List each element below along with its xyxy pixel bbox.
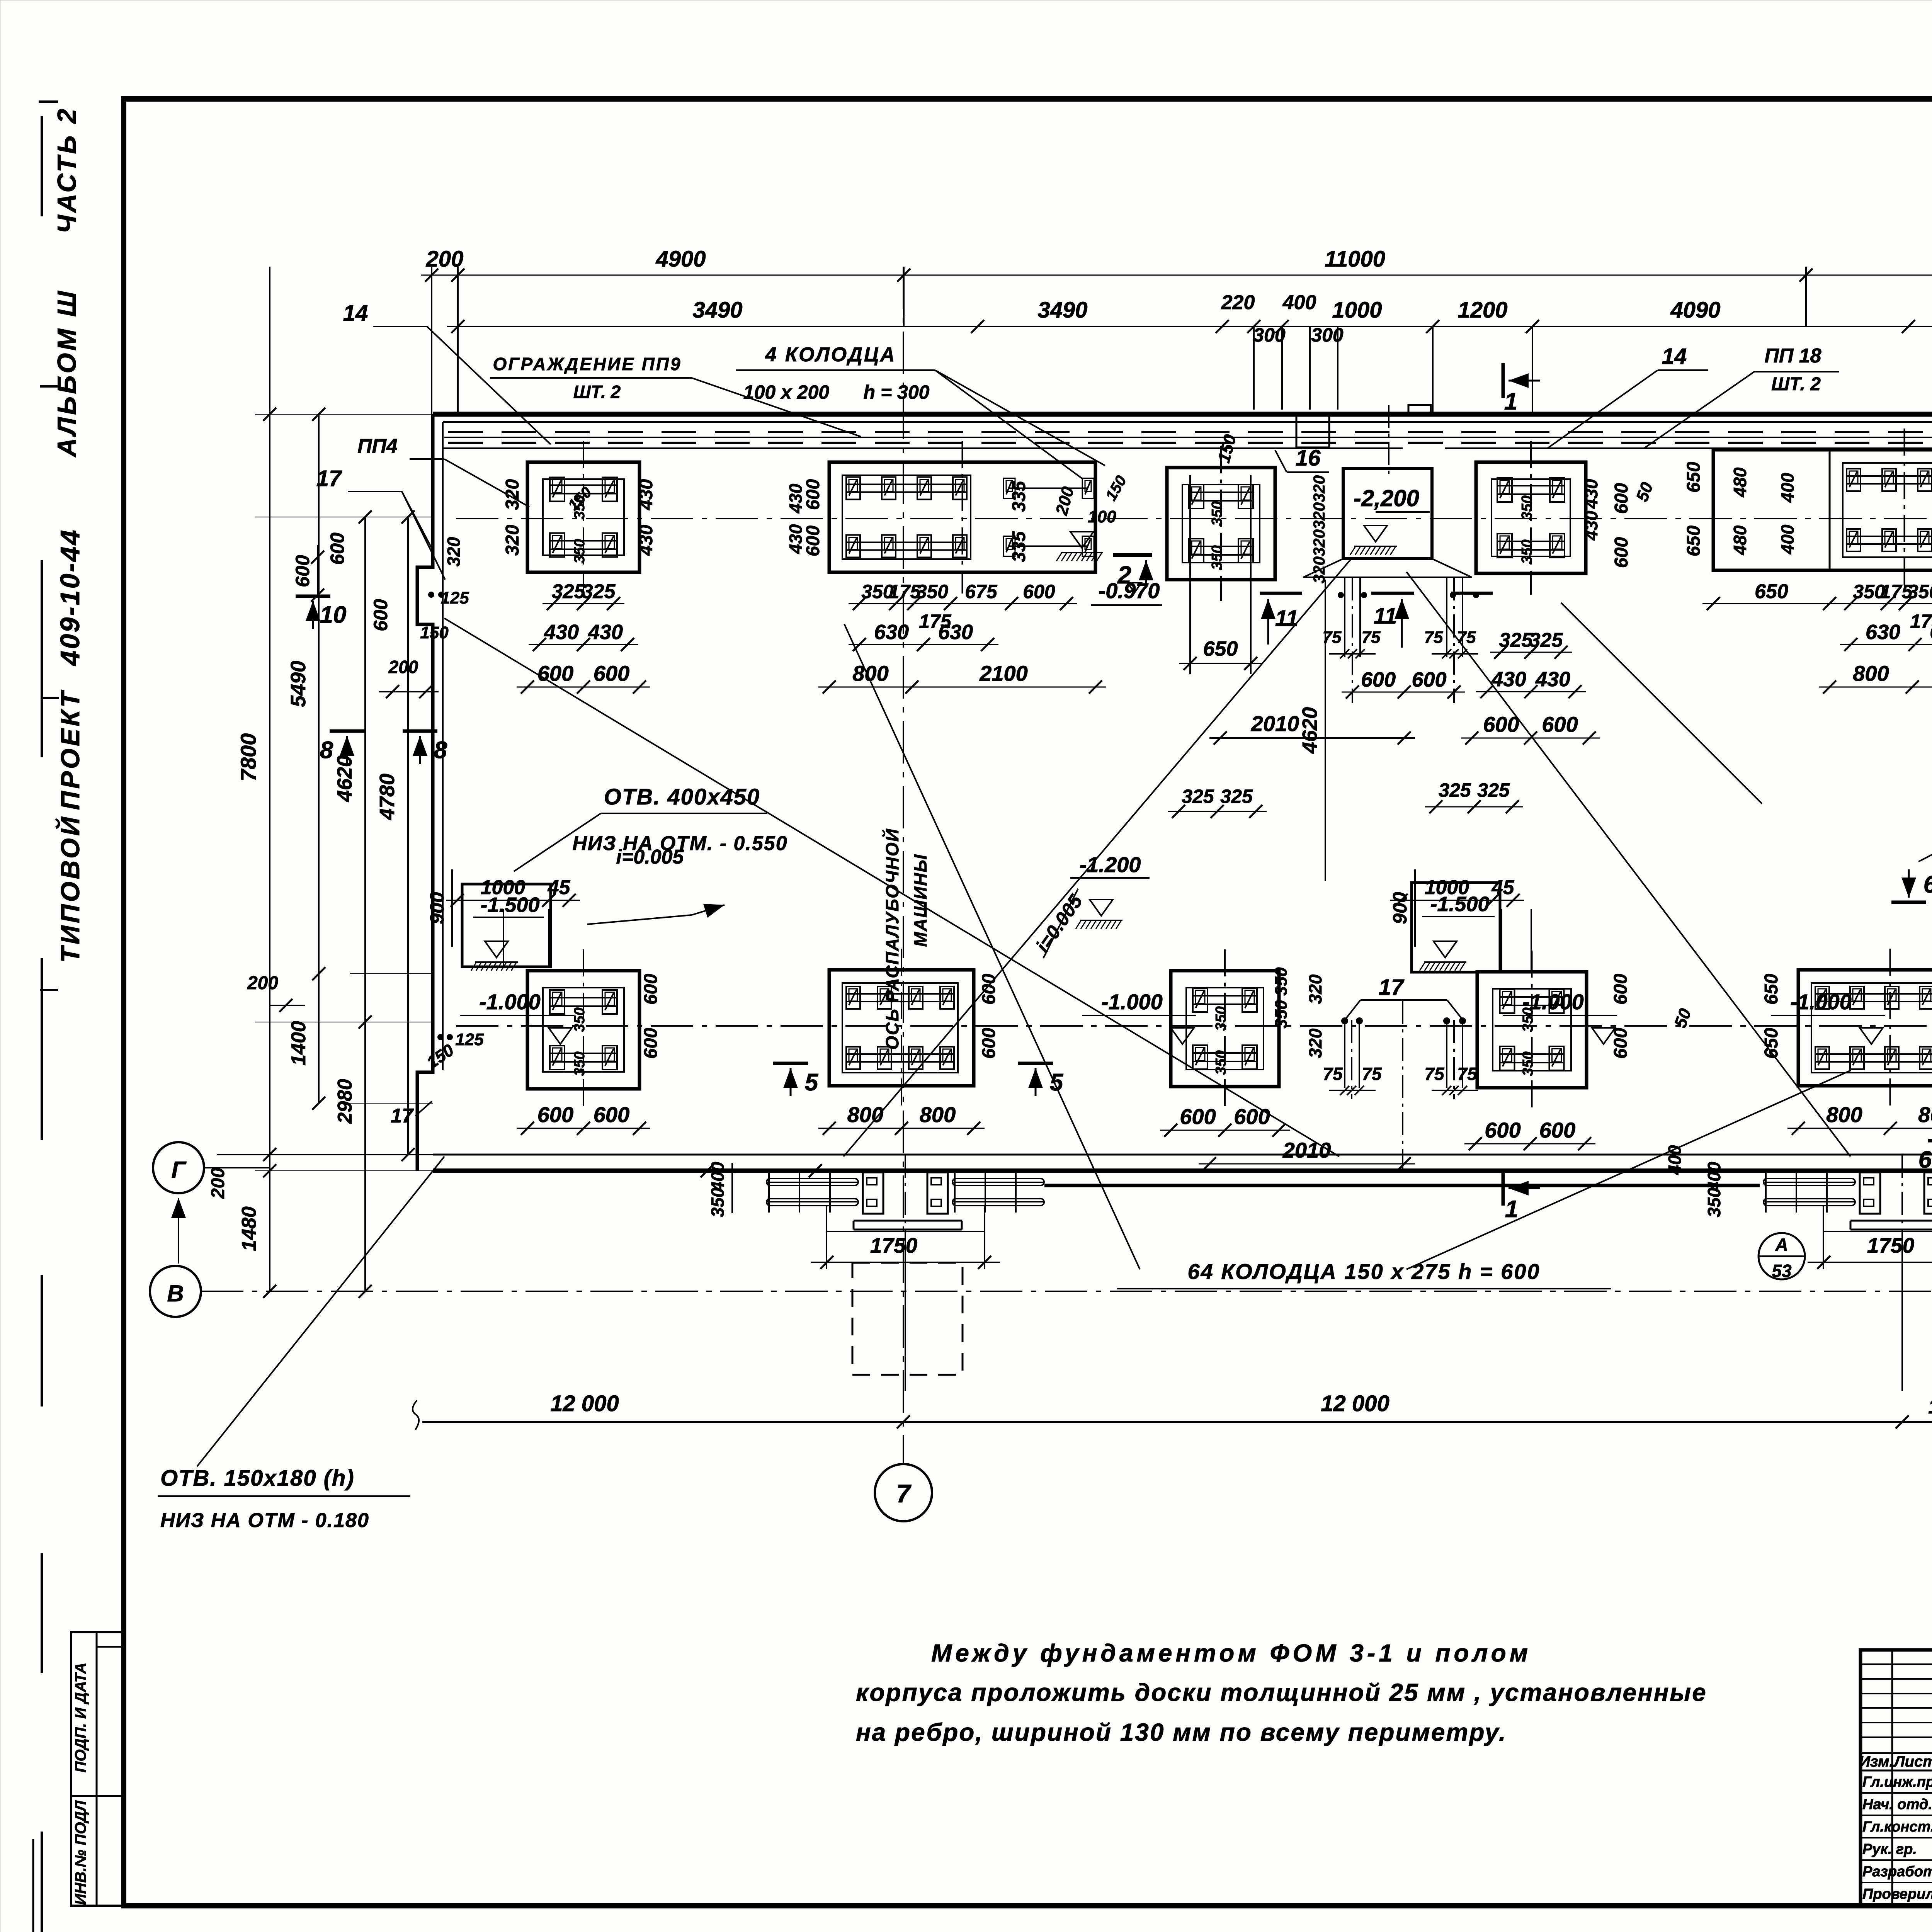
svg-text:100: 100 [1088,507,1116,526]
svg-text:45: 45 [1492,876,1515,899]
svg-text:75: 75 [1457,628,1476,647]
svg-text:150: 150 [420,623,449,642]
svg-text:350: 350 [1519,539,1535,564]
svg-text:350: 350 [1908,581,1932,602]
svg-text:ПРОЕКТ: ПРОЕКТ [56,689,85,810]
svg-text:1: 1 [1504,388,1517,415]
svg-text:11: 11 [1275,606,1298,631]
svg-text:325: 325 [1477,779,1510,801]
svg-text:650: 650 [1203,637,1238,660]
svg-text:430: 430 [1581,510,1601,541]
svg-text:16: 16 [1296,446,1321,471]
svg-text:200: 200 [208,1168,228,1199]
svg-text:320: 320 [502,479,523,510]
svg-text:45: 45 [548,876,571,899]
svg-text:4090: 4090 [1670,298,1720,323]
svg-text:350: 350 [571,539,588,563]
svg-text:4620: 4620 [333,755,356,802]
svg-text:Между фундаментом: Между фундаментом ФОМ 3-1 и полом [931,1639,1531,1667]
svg-text:325: 325 [1182,786,1214,807]
svg-text:600: 600 [1542,712,1578,736]
svg-text:320: 320 [1310,529,1328,556]
svg-text:600: 600 [1611,537,1632,568]
svg-text:i=0.005: i=0.005 [616,846,684,868]
svg-text:600: 600 [979,1028,999,1059]
svg-text:75: 75 [1457,1064,1478,1084]
svg-text:17: 17 [316,466,342,491]
svg-text:125: 125 [440,588,469,607]
svg-text:3490: 3490 [692,298,742,323]
svg-text:650: 650 [1684,462,1704,493]
svg-text:650: 650 [1761,974,1782,1005]
svg-text:1000: 1000 [481,876,526,899]
svg-text:430: 430 [1491,668,1526,691]
svg-text:430: 430 [544,621,579,644]
svg-text:600: 600 [594,661,629,685]
svg-text:1200: 1200 [1458,298,1507,323]
svg-text:320: 320 [444,537,464,566]
svg-text:400: 400 [1704,1162,1724,1192]
svg-text:800: 800 [1826,1102,1862,1127]
svg-text:14: 14 [343,301,368,326]
svg-text:325: 325 [582,580,616,603]
svg-text:600: 600 [1611,974,1631,1005]
svg-text:6: 6 [1923,871,1932,898]
svg-text:409-10-44: 409-10-44 [55,528,85,666]
svg-text:12 000: 12 000 [550,1391,619,1416]
svg-text:400: 400 [1282,291,1316,314]
svg-text:630: 630 [1930,621,1932,644]
svg-text:1000: 1000 [1928,1396,1932,1418]
svg-text:-1.000: -1.000 [1522,990,1584,1014]
svg-text:350: 350 [1209,545,1225,570]
svg-text:17: 17 [391,1105,414,1127]
svg-text:ТИПОВОЙ: ТИПОВОЙ [55,815,85,963]
svg-text:1750: 1750 [1867,1233,1915,1257]
svg-text:ОГРАЖДЕНИЕ ПП9: ОГРАЖДЕНИЕ ПП9 [493,354,682,374]
svg-text:Проверил: Проверил [1862,1886,1932,1902]
svg-text:1: 1 [1505,1196,1518,1223]
svg-text:НИЗ НА ОТМ - 0.180: НИЗ НА ОТМ - 0.180 [160,1509,369,1532]
svg-text:h = 300: h = 300 [864,381,930,403]
svg-text:350: 350 [571,1051,588,1076]
svg-text:ОТВ. 400х450: ОТВ. 400х450 [604,784,760,810]
svg-text:320: 320 [1310,502,1328,529]
svg-text:900: 900 [1389,892,1411,924]
svg-text:600: 600 [537,1102,573,1127]
svg-text:325: 325 [1220,786,1253,807]
svg-text:600: 600 [641,1028,661,1059]
svg-text:75: 75 [1362,628,1381,647]
svg-text:-1.200: -1.200 [1080,852,1141,877]
svg-text:220: 220 [1221,291,1255,314]
svg-text:2010: 2010 [1282,1138,1331,1162]
svg-text:6: 6 [1918,1146,1932,1173]
svg-text:600: 600 [803,526,823,556]
svg-text:4780: 4780 [376,774,399,820]
svg-text:7: 7 [896,1479,912,1508]
svg-text:Гл.инж.пр: Гл.инж.пр [1862,1774,1932,1790]
svg-text:900: 900 [426,892,448,924]
svg-text:600: 600 [1539,1118,1575,1142]
svg-text:Г: Г [172,1157,187,1183]
svg-text:11000: 11000 [1325,247,1385,272]
svg-text:600: 600 [1485,1118,1520,1142]
svg-text:4 КОЛОДЦА: 4 КОЛОДЦА [765,344,896,366]
svg-text:75: 75 [1424,628,1443,647]
svg-text:650: 650 [1684,526,1704,556]
svg-text:650: 650 [1755,580,1788,603]
svg-text:А: А [1775,1235,1788,1255]
svg-text:Изм.: Изм. [1859,1753,1893,1770]
svg-text:600: 600 [803,479,823,510]
svg-text:350: 350 [1213,1006,1229,1031]
svg-text:400: 400 [1777,473,1798,503]
svg-text:125: 125 [455,1030,484,1049]
svg-text:10: 10 [320,602,347,628]
svg-text:17: 17 [1379,975,1405,1000]
svg-text:630: 630 [938,621,973,644]
svg-text:8: 8 [320,737,333,764]
svg-text:ОСЬ РАСПАЛУБОЧНОЙ: ОСЬ РАСПАЛУБОЧНОЙ [882,828,902,1049]
svg-text:ИНВ.№ ПОДЛ: ИНВ.№ ПОДЛ [72,1800,89,1905]
svg-text:480: 480 [1730,467,1750,497]
svg-text:ШТ. 2: ШТ. 2 [573,382,621,402]
svg-text:на ребро, шириной 130 мм: на ребро, шириной 130 мм по всему периме… [856,1718,1507,1746]
svg-text:4620: 4620 [1298,707,1321,754]
svg-text:8: 8 [434,737,447,764]
svg-text:75: 75 [1362,1064,1382,1084]
svg-text:350: 350 [1520,1051,1536,1076]
svg-text:ШТ. 2: ШТ. 2 [1771,374,1821,395]
svg-text:320: 320 [502,525,523,556]
svg-text:320: 320 [1305,974,1325,1004]
svg-text:335: 335 [1009,531,1029,562]
svg-text:350: 350 [1213,1050,1229,1075]
svg-text:600: 600 [370,599,391,631]
svg-text:600: 600 [641,974,661,1005]
svg-text:2980: 2980 [334,1079,356,1124]
svg-text:ПОДП. И ДАТА: ПОДП. И ДАТА [72,1663,89,1773]
svg-text:335: 335 [1009,481,1029,512]
svg-text:320: 320 [1305,1028,1325,1058]
svg-text:2: 2 [1117,561,1131,589]
svg-text:600: 600 [292,555,313,587]
svg-text:600: 600 [1234,1104,1270,1129]
svg-text:1000: 1000 [1425,876,1469,899]
svg-text:ПП 18: ПП 18 [1764,345,1821,367]
svg-text:75: 75 [1424,1064,1445,1084]
svg-text:1400: 1400 [287,1021,310,1066]
svg-text:630: 630 [1866,621,1900,644]
svg-text:1750: 1750 [870,1233,918,1257]
svg-text:800: 800 [1918,1102,1932,1127]
svg-text:320: 320 [1310,475,1328,502]
svg-text:11: 11 [1374,604,1397,629]
svg-text:-2,200: -2,200 [1354,485,1419,511]
svg-text:Гл.конст.пр: Гл.конст.пр [1862,1819,1932,1835]
svg-text:Разработ.: Разработ. [1862,1864,1932,1880]
svg-text:350: 350 [571,1007,588,1032]
svg-text:600: 600 [1180,1104,1216,1129]
svg-text:675: 675 [965,581,998,602]
svg-text:-1.000: -1.000 [1790,990,1852,1014]
svg-text:В: В [167,1281,184,1306]
svg-text:5: 5 [1050,1069,1064,1096]
svg-text:ЧАСТЬ 2: ЧАСТЬ 2 [52,107,82,234]
svg-text:корпуса проложить доски: корпуса проложить доски толщинной 25 мм … [856,1679,1707,1706]
svg-text:1000: 1000 [1332,298,1382,323]
svg-text:430: 430 [636,525,656,556]
svg-text:5490: 5490 [287,661,310,707]
svg-text:600: 600 [979,974,999,1005]
svg-text:ПП4: ПП4 [357,435,398,457]
svg-text:350: 350 [1519,495,1535,520]
svg-text:Лист: Лист [1893,1753,1932,1770]
svg-text:325: 325 [552,580,586,603]
svg-text:800: 800 [920,1102,956,1127]
svg-text:350: 350 [916,581,949,602]
svg-text:14: 14 [1662,344,1687,369]
svg-text:ОТВ. 150х180 (h): ОТВ. 150х180 (h) [160,1466,355,1491]
svg-text:600: 600 [594,1102,629,1127]
svg-text:600: 600 [537,661,573,685]
svg-text:64 КОЛОДЦА 150 х 275 h =: 64 КОЛОДЦА 150 х 275 h = 600 [1187,1259,1540,1284]
svg-text:350: 350 [1272,967,1291,996]
svg-text:7800: 7800 [236,733,260,782]
svg-text:200: 200 [247,973,278,993]
svg-text:12 000: 12 000 [1321,1391,1389,1416]
svg-text:600: 600 [1611,1028,1631,1059]
svg-text:600: 600 [1611,483,1632,514]
svg-text:480: 480 [1730,525,1750,555]
svg-text:325: 325 [1529,629,1563,651]
svg-text:Нач. отд.: Нач. отд. [1862,1796,1932,1813]
svg-text:-1.000: -1.000 [479,990,541,1014]
svg-text:350: 350 [707,1187,728,1217]
svg-text:350: 350 [1272,1000,1291,1029]
svg-text:5: 5 [805,1069,819,1096]
svg-text:630: 630 [874,621,909,644]
svg-text:800: 800 [1853,661,1889,685]
svg-text:АЛЬБОМ Ш: АЛЬБОМ Ш [52,289,82,457]
svg-text:400: 400 [1665,1145,1685,1175]
svg-text:53: 53 [1772,1261,1792,1281]
svg-text:600: 600 [327,532,348,565]
svg-text:320: 320 [1310,556,1328,583]
svg-text:175: 175 [1910,611,1932,632]
svg-text:100 х 200: 100 х 200 [743,381,830,403]
svg-text:430: 430 [1535,668,1570,691]
svg-text:350: 350 [1209,501,1225,526]
svg-text:350: 350 [1704,1187,1724,1217]
svg-text:4900: 4900 [655,247,706,272]
svg-text:75: 75 [1323,1064,1343,1084]
svg-text:800: 800 [847,1102,883,1127]
svg-text:430: 430 [1581,479,1601,509]
svg-text:430: 430 [588,621,623,644]
svg-text:600: 600 [1023,581,1055,602]
svg-text:300: 300 [1253,324,1286,346]
svg-text:600: 600 [1412,668,1446,691]
svg-text:400: 400 [1777,524,1798,554]
svg-text:1480: 1480 [238,1206,260,1251]
svg-text:3490: 3490 [1037,298,1087,323]
svg-text:325: 325 [1439,779,1471,801]
svg-text:600: 600 [1483,712,1519,736]
svg-text:2010: 2010 [1251,711,1299,736]
svg-text:200: 200 [388,657,418,677]
svg-text:325: 325 [1499,629,1533,651]
svg-text:Рук. гр.: Рук. гр. [1862,1841,1917,1857]
svg-text:-1.000: -1.000 [1101,990,1163,1014]
svg-text:2100: 2100 [979,661,1028,685]
svg-text:600: 600 [1361,668,1396,691]
svg-text:300: 300 [1311,324,1344,346]
svg-text:430: 430 [636,479,656,510]
